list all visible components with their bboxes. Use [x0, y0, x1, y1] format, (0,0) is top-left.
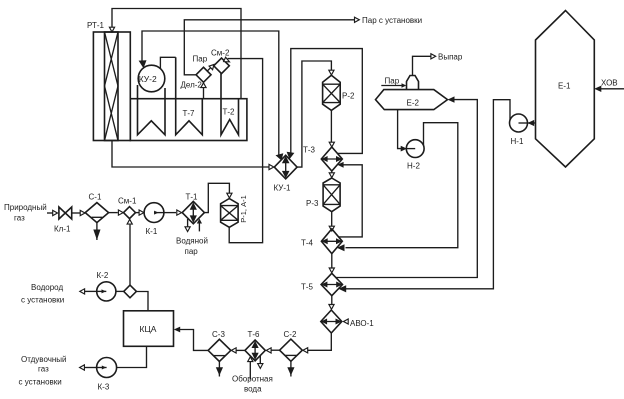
arrow open into Sm-2 left-lower edge: [209, 64, 214, 69]
svg-text:Выпар: Выпар: [438, 53, 463, 62]
wire AVO-1 to S-2: [307, 333, 332, 350]
arrow open right into T-1: [177, 210, 182, 215]
svg-text:Т-5: Т-5: [301, 283, 314, 292]
arrow filled left into KCA: [174, 327, 180, 333]
wire S-1 to Sm-1: [109, 212, 118, 214]
svg-text:АВО-1: АВО-1: [350, 319, 374, 328]
svg-text:См-2: См-2: [211, 49, 230, 58]
wire T-2 outlet to RT-1 top: [112, 9, 241, 99]
arrow open right into Sm-1: [118, 210, 123, 215]
wire steam riser into Del-2: [203, 87, 205, 99]
furnace coil T-7: [176, 57, 203, 135]
wire cooling water return: [259, 356, 261, 364]
wire steam export from Del-2: [184, 20, 354, 75]
arrow filled left into T-5 lower-right edge: [338, 285, 346, 292]
svg-text:Пар: Пар: [193, 55, 208, 64]
pump N-1: [510, 114, 528, 146]
svg-text:Н-2: Н-2: [407, 162, 420, 171]
svg-text:С-2: С-2: [284, 330, 297, 339]
heat exchanger T-1: [182, 193, 204, 224]
wire vapor vent Vypar: [413, 56, 431, 75]
wire feedwater header to KU-2 and KU-1: [142, 31, 279, 155]
arrow open down into R-3: [329, 173, 334, 178]
compressor K-3: [97, 358, 117, 392]
arrow open down return: [258, 364, 263, 369]
svg-text:Т-3: Т-3: [303, 146, 316, 155]
svg-text:Оборотная: Оборотная: [232, 375, 273, 384]
wire KCA hydrogen to tee: [136, 292, 148, 311]
wire T-1 to R-1 top: [204, 183, 229, 212]
tee diamond hydrogen split: [124, 285, 137, 298]
wire R-2 to T-3: [330, 110, 332, 142]
wire T-3 to R-3: [331, 171, 333, 177]
arrow open down into RT-1: [109, 27, 114, 32]
wire N-1 discharge to T-5: [345, 100, 510, 289]
desulphurizer R-1,A-1 vessel: [221, 195, 248, 227]
svg-text:К-3: К-3: [98, 383, 110, 392]
duct KU-2 to T-7: [160, 57, 175, 69]
pump N-2: [406, 140, 424, 171]
arrow open down into T-4: [329, 226, 334, 231]
svg-text:Водяной: Водяной: [176, 237, 208, 246]
svg-text:Н-1: Н-1: [511, 137, 524, 146]
mixer Sm-1: [118, 197, 137, 219]
furnace coil T-2: [221, 74, 239, 135]
wire steam into T-1: [198, 222, 200, 232]
svg-text:РТ-1: РТ-1: [87, 21, 105, 30]
arrow open down into T-5: [329, 268, 334, 273]
svg-text:Водород: Водород: [31, 283, 63, 292]
arrow open right into S-1: [80, 210, 85, 215]
wire KU-1 gas to R-2: [297, 61, 331, 167]
arrow filled left into E-1: [594, 86, 601, 92]
wire T-3 upper port to KU-1: [291, 49, 363, 154]
arrow open up into Del-2: [201, 83, 206, 88]
furnace convection box: [130, 99, 247, 141]
svg-text:Е-2: Е-2: [407, 99, 420, 108]
svg-text:Т-4: Т-4: [301, 239, 314, 248]
svg-text:с установки: с установки: [19, 378, 62, 387]
svg-text:Т-6: Т-6: [248, 330, 261, 339]
arrow filled left into N-1: [528, 120, 535, 126]
arrow into KU-1 upper-right edge: [287, 152, 295, 159]
wire S-2 to T-6: [270, 349, 279, 351]
steam drum E-2: [376, 90, 448, 110]
svg-text:пар: пар: [185, 247, 199, 256]
reformer RT-1 vessel: [87, 21, 130, 141]
arrow right par into dome: [402, 83, 407, 87]
arrow open left into S-2: [303, 348, 308, 353]
wire Sm-1 to K-1: [136, 212, 140, 214]
heat exchanger T-4: [301, 229, 342, 254]
svg-text:Природный: Природный: [4, 203, 47, 212]
arrow open up into T-6: [248, 357, 253, 362]
compressor K-2: [97, 271, 124, 301]
mixer Sm-2: [211, 49, 230, 74]
arrow open down drain: [185, 227, 190, 232]
svg-text:Е-1: Е-1: [558, 82, 571, 91]
wire valve to S-1: [72, 212, 81, 214]
wire T-1 condensate drain: [187, 219, 189, 227]
compressor K-1: [144, 203, 164, 236]
separator S-3: [208, 330, 231, 377]
svg-text:КУ-1: КУ-1: [274, 184, 291, 193]
shift reactor R-3: [306, 178, 340, 212]
arrow open down into R-2: [329, 70, 334, 75]
separator S-2: [280, 330, 303, 377]
water cooler T-6: [245, 330, 265, 361]
arrow open left into T-6: [266, 348, 271, 353]
boiler KU-1: [274, 155, 298, 192]
shift reactor R-2: [323, 75, 355, 110]
svg-text:С-1: С-1: [89, 193, 102, 202]
wire cooling water supply: [249, 362, 251, 380]
arrow open right into KU-1: [269, 164, 274, 169]
wire E-2 to pump N-2: [398, 110, 402, 149]
arrow open right export: [355, 17, 360, 22]
wire T-4 upper port to T-3 lower port: [339, 165, 363, 237]
arrow open down into T-3: [329, 142, 334, 147]
arrow open down into R-1: [227, 193, 232, 198]
valve Kl-1: [54, 207, 72, 234]
svg-text:ХОВ: ХОВ: [601, 79, 618, 88]
wire K-1 to T-1: [164, 212, 176, 214]
svg-text:Дел-2: Дел-2: [181, 81, 203, 90]
arrow open up into Sm-1: [127, 219, 132, 224]
wire S-3 to KCA: [180, 330, 208, 351]
svg-text:Р-3: Р-3: [306, 199, 319, 208]
waste heat boiler KU-2: [138, 65, 165, 92]
wire steam par into E-2 dome: [381, 85, 402, 87]
svg-text:Отдувочный: Отдувочный: [21, 355, 67, 364]
svg-text:газ: газ: [14, 214, 25, 223]
wire hydrogen export: [85, 290, 97, 292]
arrow open left purge out: [80, 365, 85, 370]
wire gas riser R-1 outlet to Sm-2: [228, 59, 263, 243]
wire T-4 to T-5: [331, 254, 333, 269]
heat exchanger T-5: [301, 273, 343, 295]
svg-text:Т-1: Т-1: [186, 193, 199, 202]
svg-text:См-1: См-1: [118, 197, 137, 206]
arrow open right into K-1: [139, 210, 144, 215]
air cooler AVO-1: [321, 310, 374, 333]
arrow filled left into E-2 right vertex: [448, 96, 455, 102]
svg-text:КЦА: КЦА: [140, 324, 157, 334]
svg-text:Кл-1: Кл-1: [54, 225, 71, 234]
wire Del-2 to Sm-2 steam: [208, 68, 211, 71]
arrow open into Sm-2 upper-right edge: [224, 57, 230, 62]
svg-text:К-1: К-1: [146, 227, 158, 236]
wire T-6 to S-3: [235, 349, 245, 351]
svg-text:газ: газ: [38, 365, 49, 374]
PSA unit KCA: [124, 311, 174, 347]
svg-text:с установки: с установки: [21, 296, 64, 305]
wire N-2 discharge to T-4: [346, 123, 458, 248]
wire HOV water inlet: [596, 88, 624, 90]
arrow into KU-1 upper-left edge: [276, 153, 284, 160]
water tank E-1: [536, 11, 595, 168]
arrow into KU-2: [139, 60, 147, 68]
svg-text:Пар: Пар: [385, 77, 400, 86]
wire T-5 to AVO-1: [331, 296, 333, 305]
arrow filled left into T-4 lower-right edge: [337, 244, 345, 251]
svg-text:К-2: К-2: [97, 271, 109, 280]
arrow open down into AVO-1: [329, 305, 334, 310]
svg-text:Р-1, А-1: Р-1, А-1: [239, 195, 248, 223]
wire T-5 upper port to E-2: [336, 100, 477, 278]
svg-text:Пар с установки: Пар с установки: [362, 16, 422, 25]
svg-text:КУ-2: КУ-2: [139, 74, 157, 84]
arrow open right vypar: [431, 54, 436, 59]
wire purge gas export: [84, 367, 96, 369]
arrow into T-3 lower-right edge: [337, 162, 343, 168]
wire E-1 to N-1 suction: [528, 122, 536, 124]
flue pennant under KU-2: [138, 85, 166, 135]
separator S-1: [85, 193, 108, 241]
arrow open left into S-3: [231, 348, 236, 353]
svg-text:Р-2: Р-2: [342, 92, 355, 101]
wire R-3 to T-4: [331, 212, 333, 227]
arrow open right into valve: [53, 210, 58, 215]
wire hydrogen recycle to Sm-1: [129, 225, 131, 286]
svg-text:С-3: С-3: [212, 330, 225, 339]
wire RT-1 bottom to KU-1: [112, 141, 269, 168]
heat exchanger T-3: [303, 146, 342, 172]
arrow filled right into N-2: [401, 146, 407, 152]
svg-text:Т-2: Т-2: [223, 108, 236, 117]
dome nozzle on E-2: [407, 76, 419, 90]
svg-text:вода: вода: [244, 385, 262, 394]
arrow up steam in: [197, 219, 202, 224]
svg-text:Т-7: Т-7: [183, 109, 196, 118]
wire KCA purge gas to K-3: [117, 346, 147, 367]
arrow open left hydrogen out: [80, 289, 85, 294]
divider Del-2: [181, 67, 212, 89]
